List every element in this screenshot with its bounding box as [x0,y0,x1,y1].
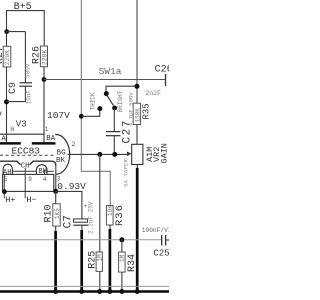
node junction dot anode A [4,99,9,104]
resistor R36 [106,206,113,226]
svg-text:H+: H+ [5,195,15,205]
svg-text:H−: H− [26,195,36,205]
node ground dot R25 [97,289,102,294]
wire R34 to bus [121,272,123,291]
svg-text:107V: 107V [47,110,70,121]
wire anode rail to C26 [44,79,165,81]
resistor R25 [96,252,102,271]
tube anode bar B [32,142,56,145]
tube anode bar A [0,142,21,145]
tube cathode bar A with hook [0,161,21,165]
svg-text:150K: 150K [134,108,141,123]
wire R34 drop [121,240,123,252]
svg-text:1K5: 1K5 [54,208,61,219]
capacitor C26 plate [165,74,167,86]
wire heater pin9 [24,168,26,199]
svg-text:220K: 220K [41,49,48,65]
svg-text:GAIN: GAIN [159,143,169,163]
svg-text:1: 1 [45,126,49,133]
wire R25 column [99,154,101,252]
wire C7 bottom thin [81,225,83,230]
switch SW1a arm [107,95,113,105]
svg-text:2.2uF 25V: 2.2uF 25V [87,201,94,234]
node junction dot switch/R35/C26 [135,84,140,89]
node ground dot cathode [53,289,58,294]
wire R26 bottom to anode B [43,67,45,143]
svg-text:10K: 10K [107,205,114,216]
wire thick-switch link [81,109,100,117]
wire R35 bottom to pot top [136,125,138,145]
tube grid dashed line [0,154,56,156]
wire C9 branch horizontal [7,31,26,33]
svg-text:R34: R34 [127,254,138,272]
svg-text:10nF: 10nF [25,90,32,105]
wire signal line to C25 [0,239,162,241]
resistor R10 [53,204,60,226]
wire grid B from tube [68,153,129,155]
tube heater mid line [12,170,36,172]
svg-text:1M: 1M [119,254,126,262]
wire pot to ground thick [136,168,139,292]
tube cathode bar B with hooks [30,161,56,165]
switch contact THICK [97,106,102,111]
resistor R34 [119,252,126,272]
capacitor C27 [106,131,120,133]
svg-text:THICK: THICK [90,92,97,110]
wire R10 bottom thin [55,226,57,231]
wire input drop to R35 junction [136,0,138,103]
wire C27 bottom to wiper node [113,136,115,155]
wire R26 drop [43,10,45,46]
svg-text:V3: V3 [16,119,27,129]
wire ground bus thick [0,290,169,293]
svg-text:BA: BA [46,135,56,143]
capacitor C9 [20,82,33,84]
node H+ dot [2,189,7,194]
svg-text:2n2F: 2n2F [145,90,161,97]
tube heater arch A [3,164,12,174]
node junction dot wiper/C27 [112,152,117,157]
capacitor C7 electrolytic [74,219,88,222]
svg-text:4: 4 [43,176,47,183]
wire cathode to R10 [55,191,57,203]
wire C9 top vertical [24,32,26,83]
svg-text:C25: C25 [153,248,169,258]
resistor 220K (left, plate A) [3,46,11,67]
svg-text:BRIGHT: BRIGHT [117,90,124,112]
svg-text:SW1a: SW1a [99,66,122,77]
wire cathode node to C7 [56,191,82,219]
node junction dot R34 tap [119,237,124,242]
wire R10 to ground thick [54,231,57,292]
svg-text:1M: 1M [96,254,103,262]
svg-text:C26: C26 [155,65,169,76]
wire cathode B down [55,165,57,191]
svg-text:C9: C9 [8,82,19,94]
svg-text:100nF/VI: 100nF/VI [142,227,169,234]
svg-text:B+5: B+5 [14,2,32,13]
node ground dot R36 [107,289,112,294]
wire left resistor bottom to anode A [6,67,8,143]
node cathode junction dot [53,189,58,194]
svg-text:BK: BK [56,157,66,165]
svg-text:2: 2 [72,141,76,148]
wire C7 to ground thick [80,230,83,292]
svg-text:220K: 220K [4,50,11,66]
resistor R26 [40,46,47,67]
wire heater pin4 [44,170,46,175]
tube socket box [3,174,54,191]
wire left B+ drop to R top [6,10,8,46]
tube heater arch B [36,165,47,175]
wire R25 to bus [99,271,101,291]
capacitor C25 [161,235,163,246]
wire C9 bottom to anode A node [7,86,26,101]
wire pot bottom thin [136,165,138,169]
potentiometer VR2 wiper arrow [127,152,132,157]
node ground dot C7 [79,289,84,294]
node junction dot grid-B / R25 [97,152,102,157]
wire BRIGHT to C27 [113,108,115,132]
svg-text:R35: R35 [142,103,152,119]
wire B+ top rail [7,10,45,12]
wire long input vertical (gray) [81,0,110,206]
svg-text:0.93V: 0.93V [57,181,86,192]
tube envelope top [0,133,45,135]
svg-text:9: 9 [28,176,32,183]
node junction dot thick-link [79,114,84,119]
switch SW1a pivot contact [104,91,109,96]
svg-text:5A TAPER: 5A TAPER [122,159,129,187]
switch contact BRIGHT [112,106,117,111]
svg-text:R10: R10 [43,204,54,222]
wire heater rail thin [0,285,169,287]
wire R36 to ground thick [109,229,112,292]
node junction dot anode-A branch [4,29,9,34]
node ground dot VR2 [135,289,140,294]
node junction dot anode B [42,77,47,82]
resistor R35 [133,103,140,124]
svg-text:C7: C7 [63,215,75,228]
potentiometer VR2 body [132,144,143,164]
node ground dot R34 [119,289,124,294]
wire R36 bottom thin [109,225,111,230]
wire heater pin5 [3,174,5,198]
switch SW1a common stem [106,86,137,91]
svg-text:6: 6 [11,126,15,133]
svg-text:500V: 500V [25,63,32,78]
tube envelope right bulge [56,134,70,174]
svg-text:R36: R36 [114,204,126,226]
